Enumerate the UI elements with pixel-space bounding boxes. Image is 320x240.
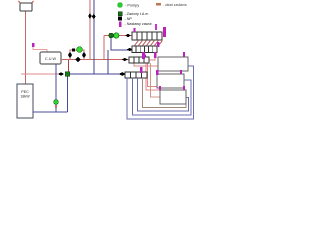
wire: supply to room B <box>148 63 158 87</box>
svg-text:- NP: - NP <box>125 17 133 21</box>
radiator R1 magenta valve left <box>134 28 136 32</box>
room C <box>160 90 186 104</box>
wire: main hot line <box>61 59 129 61</box>
svg-text:- Zawory t.A m: - Zawory t.A m <box>125 12 149 16</box>
expansion vessel tick right <box>32 1 34 4</box>
wire: boiler return bottom <box>33 111 68 113</box>
legend top-right dash <box>156 3 161 5</box>
supply manifold M3 <box>129 57 149 63</box>
room B magenta valve left <box>156 70 159 75</box>
wire: return riser from top <box>93 0 95 74</box>
room C magenta valve right <box>183 86 185 90</box>
valve manifold-3 <box>122 58 127 61</box>
radiator R2 magenta valve right <box>157 42 160 47</box>
valve radiator-1 <box>126 34 131 37</box>
check valve on return riser <box>92 14 96 20</box>
room A <box>158 57 188 71</box>
valve at CUW feed <box>58 72 63 75</box>
wire: supply to room A top valve <box>149 57 155 60</box>
radiator R1 magenta valve right <box>163 27 166 37</box>
wire: supply to room C <box>146 63 160 90</box>
radiator R1 <box>132 32 162 40</box>
svg-text:- Nastawy zawor.: - Nastawy zawor. <box>125 22 153 26</box>
pump bright <box>114 33 119 38</box>
wire: return loop C <box>138 78 189 111</box>
pump cluster <box>77 47 83 53</box>
wire: supply to room A left <box>134 63 158 66</box>
legend magenta symbol <box>119 22 122 28</box>
wire: boiler feed to CUW valve <box>21 73 58 75</box>
valve right riser <box>82 52 86 58</box>
room B magenta valve right <box>180 70 182 74</box>
valve left riser <box>68 52 72 58</box>
room B <box>157 74 184 88</box>
valve radiator-2 <box>127 48 132 51</box>
check valve on supply riser <box>88 13 92 19</box>
wire: drop to radiator-2 <box>111 38 132 50</box>
room C magenta valve left <box>159 86 161 90</box>
pump dark (return) <box>109 33 114 38</box>
wire: cold water inlet <box>33 47 47 52</box>
room A magenta valve right <box>183 52 185 57</box>
radiator R2 <box>132 46 157 53</box>
wire: radiator supply riser <box>103 36 105 60</box>
pump CUW return <box>54 100 59 105</box>
boiler PEC <box>17 84 33 118</box>
radiator R1 drain diagonals <box>135 41 163 46</box>
wire: return loop B <box>133 78 192 115</box>
flow tick <box>55 105 57 108</box>
expansion vessel <box>20 3 32 11</box>
three-way valve (green square) <box>65 72 70 77</box>
wire: square down to boiler return <box>67 77 69 113</box>
wire: expansion vessel riser <box>25 11 27 84</box>
wire: radiator-1 supply line <box>104 35 132 37</box>
wire: return manifold line <box>70 73 126 75</box>
cold water inlet valve (magenta) <box>32 43 35 47</box>
legend pump symbol <box>118 3 123 8</box>
manifold M4 magenta valve <box>140 67 143 73</box>
wire: return loop A <box>127 66 194 119</box>
mixing valve diamond <box>75 57 80 62</box>
ball valve on bypass <box>72 48 75 51</box>
wire: supply riser from top <box>89 0 91 60</box>
svg-text:C.U.W: C.U.W <box>45 57 57 61</box>
legend black square symbol <box>118 17 122 21</box>
wire: square riser to main line <box>68 60 70 72</box>
wire: supply to room C left edge <box>151 63 161 97</box>
legend green square symbol <box>118 12 122 16</box>
return manifold M4 <box>125 72 147 78</box>
adjustment valve mark (standalone) <box>155 24 157 30</box>
svg-text:- uklad zasilania: - uklad zasilania <box>163 3 187 7</box>
valve manifold-4 <box>119 72 125 75</box>
room A magenta valve left <box>154 52 157 58</box>
wire: pump cluster bypass <box>70 50 84 60</box>
manifold M3 magenta valve <box>142 52 145 59</box>
expansion vessel tick left <box>19 1 21 4</box>
CUW tank <box>40 52 61 64</box>
wire: return loop D <box>143 78 187 108</box>
svg-text:18kW: 18kW <box>20 95 30 99</box>
radiator R2 magenta tick below <box>144 55 146 58</box>
svg-text:PEC: PEC <box>21 90 29 94</box>
wire: CUW return down <box>55 64 57 112</box>
wire: link down to manifold line <box>107 50 109 74</box>
svg-text:- Pompy: - Pompy <box>125 4 139 8</box>
